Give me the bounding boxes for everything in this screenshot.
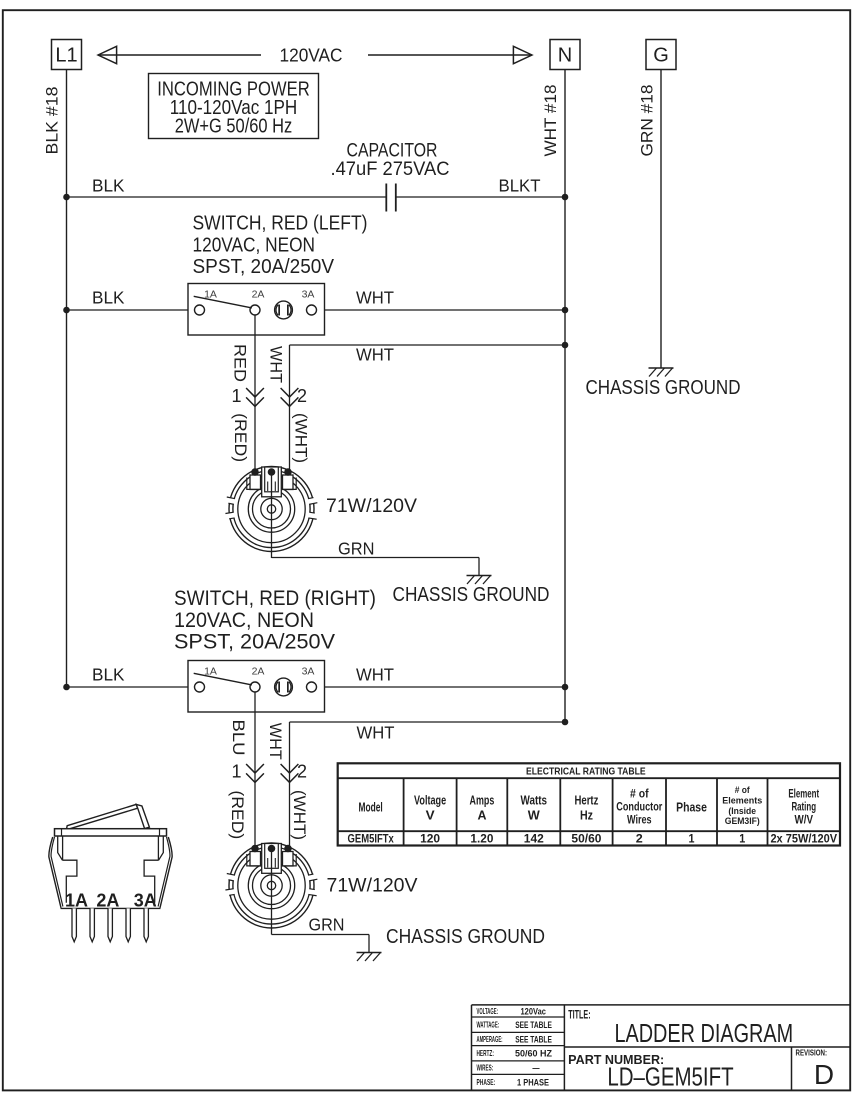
node row2-N	[562, 307, 569, 314]
svg-text:120VAC: 120VAC	[280, 45, 343, 66]
svg-text:120Vac: 120Vac	[521, 1006, 546, 1017]
svg-text:D: D	[814, 1059, 834, 1090]
svg-text:A: A	[477, 808, 487, 823]
switch S2 description	[174, 587, 376, 654]
svg-text:Rating: Rating	[791, 802, 816, 814]
arrow line 1	[231, 386, 263, 406]
terminal L1	[52, 40, 82, 70]
svg-text:3A: 3A	[302, 289, 315, 301]
svg-text:RED: RED	[231, 344, 250, 382]
incoming power note box	[149, 74, 319, 139]
wire BLK row2 left	[67, 288, 189, 311]
title block data fields	[477, 1006, 835, 1092]
wire G rail GRN #18	[638, 70, 662, 369]
node row-wht1-N	[562, 342, 569, 349]
arrow line 1 lower	[231, 762, 263, 783]
svg-text:WATTAGE:: WATTAGE:	[477, 1020, 500, 1030]
node row3-L1	[63, 684, 70, 691]
svg-text:SWITCH, RED (RIGHT): SWITCH, RED (RIGHT)	[174, 587, 376, 610]
svg-text:WHT: WHT	[266, 723, 285, 760]
svg-text:50/60 HZ: 50/60 HZ	[515, 1049, 552, 1060]
svg-text:Hz: Hz	[580, 808, 593, 823]
svg-text:CHASSIS GROUND: CHASSIS GROUND	[393, 584, 550, 606]
node row3-N	[562, 684, 569, 691]
svg-text:1A: 1A	[65, 891, 88, 911]
arrow line 2	[281, 386, 307, 406]
svg-text:SPST, 20A/250V: SPST, 20A/250V	[193, 255, 335, 278]
arrow line 2 lower	[281, 762, 307, 783]
svg-text:V: V	[426, 808, 435, 823]
svg-text:1A: 1A	[204, 666, 217, 678]
svg-text:1: 1	[739, 834, 746, 846]
svg-text:GRN: GRN	[309, 915, 345, 935]
title block	[472, 1005, 851, 1090]
svg-text:120: 120	[420, 834, 440, 846]
svg-text:WHT: WHT	[357, 723, 395, 743]
svg-text:G: G	[653, 45, 669, 67]
wire RED (line 1) S1 to E1	[231, 315, 256, 472]
svg-text:GRN #18: GRN #18	[638, 85, 657, 157]
svg-text:3A: 3A	[302, 666, 315, 678]
chassis ground (G rail)	[586, 368, 741, 399]
svg-text:(RED): (RED)	[228, 790, 247, 839]
svg-text:1.20: 1.20	[470, 834, 493, 846]
wire BLK row3 left	[67, 665, 189, 688]
svg-text:VOLTAGE:: VOLTAGE:	[477, 1006, 499, 1016]
svg-text:CHASSIS GROUND: CHASSIS GROUND	[586, 377, 741, 399]
svg-text:1 PHASE: 1 PHASE	[517, 1077, 549, 1088]
svg-text:# of: # of	[735, 785, 751, 795]
terminal N	[550, 40, 580, 70]
svg-text:WHT: WHT	[356, 288, 394, 308]
switch S1 description	[193, 212, 368, 279]
svg-text:3A: 3A	[134, 891, 157, 911]
svg-text:–: –	[532, 1063, 540, 1074]
wire WHT return E1 (line 2)	[290, 345, 566, 473]
svg-text:BLK: BLK	[92, 288, 125, 308]
chassis ground (E1)	[393, 576, 550, 607]
svg-text:WIRES:: WIRES:	[477, 1063, 494, 1073]
svg-text:2x 75W/120V: 2x 75W/120V	[770, 834, 837, 846]
svg-text:# of: # of	[630, 789, 649, 801]
node row1-N	[562, 194, 569, 201]
svg-text:Element: Element	[788, 789, 819, 801]
svg-text:2A: 2A	[252, 289, 265, 301]
svg-text:LD–GEM5IFT: LD–GEM5IFT	[607, 1062, 733, 1092]
lamp element E1 71W/120V	[225, 467, 317, 559]
svg-text:SPST, 20A/250V: SPST, 20A/250V	[174, 631, 335, 654]
120VAC supply arrows	[98, 45, 532, 66]
svg-text:2: 2	[636, 834, 643, 846]
svg-text:.47uF 275VAC: .47uF 275VAC	[331, 159, 450, 180]
electrical rating table	[338, 763, 840, 845]
svg-text:(Inside: (Inside	[728, 806, 756, 816]
capacitor C1 .47uF 275VAC	[331, 141, 450, 212]
svg-text:Hertz: Hertz	[575, 793, 599, 808]
chassis ground (E2)	[357, 926, 546, 961]
svg-text:L1: L1	[55, 45, 77, 67]
svg-text:2: 2	[297, 386, 307, 406]
svg-text:BLK: BLK	[92, 176, 125, 196]
svg-text:LADDER DIAGRAM: LADDER DIAGRAM	[614, 1018, 793, 1048]
svg-text:120VAC, NEON: 120VAC, NEON	[174, 609, 314, 632]
svg-text:(WHT): (WHT)	[292, 413, 311, 463]
svg-text:142: 142	[524, 834, 544, 846]
wire WHT row3 right	[325, 665, 566, 688]
wire WHT return E2 (line 2)	[290, 722, 566, 848]
svg-text:WHT: WHT	[267, 346, 286, 383]
svg-text:GEM5IFTx: GEM5IFTx	[348, 834, 395, 846]
svg-text:2A: 2A	[252, 666, 265, 678]
wire GRN E1 to ground	[272, 539, 480, 576]
svg-text:PHASE:: PHASE:	[477, 1077, 496, 1087]
svg-text:Phase: Phase	[676, 800, 707, 815]
svg-text:Model: Model	[359, 800, 383, 815]
node row1-L1	[63, 194, 70, 201]
svg-text:BLU: BLU	[229, 720, 248, 756]
svg-text:WHT: WHT	[356, 665, 394, 685]
wire WHT row2 right	[325, 288, 566, 311]
svg-text:2A: 2A	[96, 891, 119, 911]
wire BLKT row1 right	[396, 176, 565, 198]
switch S1 (SPST w/ neon)	[188, 284, 325, 336]
svg-text:Watts: Watts	[521, 793, 548, 808]
wire N rail WHT #18	[541, 70, 565, 723]
svg-text:Conductor: Conductor	[616, 802, 662, 814]
svg-text:50/60: 50/60	[571, 834, 601, 846]
lamp element E2 71W/120V	[225, 843, 317, 935]
svg-text:N: N	[558, 45, 572, 67]
svg-text:(WHT): (WHT)	[290, 790, 309, 840]
svg-text:CHASSIS GROUND: CHASSIS GROUND	[386, 926, 545, 948]
svg-text:AMPERAGE:: AMPERAGE:	[477, 1034, 503, 1044]
wire BLU (line 1) S2 to E2	[229, 692, 255, 848]
wire GRN E2 to ground	[272, 915, 370, 953]
svg-text:BLK: BLK	[92, 665, 125, 685]
svg-text:1: 1	[231, 386, 241, 406]
svg-text:Voltage: Voltage	[414, 793, 446, 808]
svg-text:REVISION:: REVISION:	[796, 1048, 828, 1058]
svg-text:Elements: Elements	[722, 796, 762, 806]
wire BLK row1 left	[67, 176, 387, 198]
wire L1 rail BLK #18	[43, 70, 67, 688]
switch S2 (SPST w/ neon)	[188, 661, 325, 713]
svg-text:Wires: Wires	[627, 815, 652, 827]
svg-text:SEE TABLE: SEE TABLE	[515, 1034, 552, 1045]
rocker switch pictorial	[49, 804, 172, 941]
svg-text:Amps: Amps	[470, 793, 495, 808]
svg-text:71W/120V: 71W/120V	[326, 496, 417, 517]
svg-text:ELECTRICAL RATING TABLE: ELECTRICAL RATING TABLE	[526, 766, 646, 778]
svg-text:2W+G 50/60 Hz: 2W+G 50/60 Hz	[175, 115, 293, 138]
svg-text:BLK #18: BLK #18	[43, 87, 62, 155]
svg-text:SEE TABLE: SEE TABLE	[515, 1020, 552, 1031]
svg-text:W: W	[528, 808, 541, 823]
svg-text:WHT #18: WHT #18	[541, 85, 560, 157]
svg-text:2: 2	[297, 762, 307, 782]
svg-text:TITLE:: TITLE:	[568, 1007, 590, 1021]
node row-wht2-N	[562, 719, 569, 726]
svg-text:GRN: GRN	[338, 539, 375, 559]
svg-text:SWITCH, RED (LEFT): SWITCH, RED (LEFT)	[193, 212, 368, 235]
svg-text:(RED): (RED)	[231, 413, 250, 462]
svg-text:HERTZ:: HERTZ:	[477, 1048, 494, 1058]
svg-text:BLKT: BLKT	[499, 176, 541, 196]
svg-text:1A: 1A	[204, 289, 217, 301]
svg-text:71W/120V: 71W/120V	[327, 876, 418, 897]
svg-text:W/V: W/V	[795, 815, 814, 827]
svg-text:GEM3IF): GEM3IF)	[725, 816, 760, 826]
svg-text:WHT: WHT	[356, 345, 394, 365]
svg-text:1: 1	[689, 834, 696, 846]
node row2-L1	[63, 307, 70, 314]
svg-text:1: 1	[231, 762, 241, 782]
terminal G	[646, 40, 676, 70]
svg-text:120VAC, NEON: 120VAC, NEON	[193, 234, 316, 257]
